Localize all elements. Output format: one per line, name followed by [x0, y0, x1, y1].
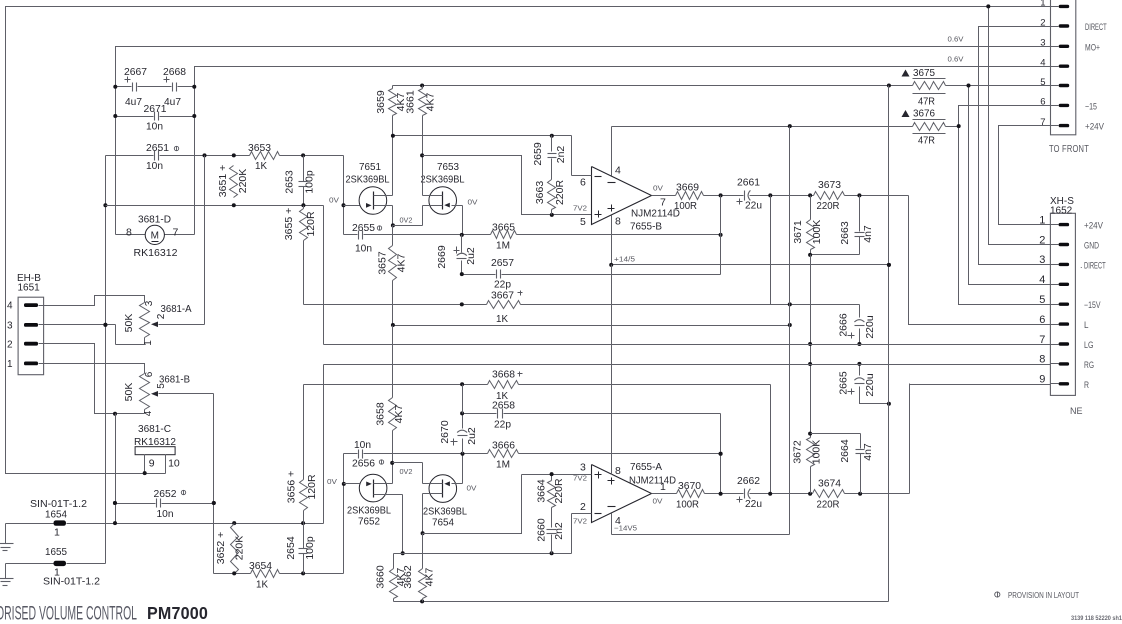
label XH-S 1652 [1050, 196, 1074, 217]
svg-text:1654: 1654 [45, 509, 67, 521]
svg-text:4n7: 4n7 [862, 443, 874, 461]
svg-text:2666: 2666 [838, 313, 850, 337]
resistor 3658 4K7 [375, 326, 406, 464]
svg-text:2661: 2661 [737, 177, 760, 189]
title MOTORISED VOLUME CONTROL [0, 603, 208, 624]
pin label GND (xh-s pin2) [1084, 241, 1099, 251]
svg-text:0.6V: 0.6V [948, 55, 964, 64]
svg-text:2659: 2659 [532, 142, 544, 166]
wire input drop x343.5 (2651 line to gate/2655) [342, 156, 346, 235]
svg-text:8: 8 [615, 216, 621, 228]
wire eh-b pin4 to pot 3681-A top [44, 296, 145, 306]
resistor 3653 1K [248, 142, 280, 172]
wire 7651 gate stub [344, 205, 360, 207]
svg-text:220R: 220R [554, 180, 566, 206]
svg-text:220K: 220K [237, 169, 249, 194]
wire 4u7 line y86.7 [113, 85, 196, 89]
svg-text:7V2: 7V2 [573, 517, 587, 526]
svg-text:2662: 2662 [737, 475, 760, 487]
pin label DIRECT (to-front pin2) [1085, 22, 1107, 32]
svg-text:2665: 2665 [838, 371, 850, 395]
svg-text:NJM2114D: NJM2114D [629, 475, 676, 487]
connector XH-S 1652 (9-pin header) [1039, 213, 1075, 395]
svg-text:3681-C: 3681-C [138, 423, 171, 435]
wire vertical x115 (pot-B bottom to 1654 line) [113, 414, 117, 524]
label 0V2 (top) [400, 216, 413, 225]
svg-text:2663: 2663 [839, 221, 851, 245]
svg-text:3659: 3659 [375, 90, 387, 114]
svg-text:4K7: 4K7 [396, 254, 408, 273]
label 0.6V (pin3 line) [948, 35, 964, 44]
svg-text:7: 7 [1040, 117, 1045, 128]
svg-text:220K: 220K [234, 536, 246, 561]
resistor 3668 1K [488, 369, 523, 403]
svg-text:3671: 3671 [792, 220, 804, 244]
wire vertical x889 (+14V5 distribution) [887, 86, 891, 602]
svg-text:4: 4 [7, 301, 13, 312]
label 0V (7653) [468, 198, 478, 207]
wire input line y155 (2651 line) [106, 153, 344, 157]
wire output' corner up to R? (to xh-s via 909) [909, 384, 911, 494]
svg-text:0V: 0V [653, 183, 663, 192]
wire 7653 drain up to 3661/155-line [420, 153, 424, 195]
wire ground line y304 (3655 to 2666) [304, 302, 860, 306]
svg-text:L: L [1084, 320, 1089, 330]
svg-text:−15V: −15V [1084, 300, 1101, 310]
svg-text:9: 9 [149, 458, 155, 470]
svg-text:100R: 100R [676, 499, 699, 511]
svg-text:TO FRONT: TO FRONT [1049, 143, 1089, 155]
svg-text:0V: 0V [653, 497, 663, 506]
svg-text:1652: 1652 [1050, 206, 1073, 217]
svg-text:1: 1 [7, 359, 13, 370]
wire -14V5 line y534 to bottom opamp pin4 [612, 534, 790, 536]
svg-text:3674: 3674 [818, 478, 841, 490]
svg-text:7V2: 7V2 [573, 204, 587, 213]
svg-text:R: R [1084, 380, 1089, 390]
svg-text:RK16312: RK16312 [134, 247, 178, 259]
svg-text:3651 +: 3651 + [217, 165, 229, 197]
capacitor 2669 2u2 (elco) [436, 235, 477, 275]
pin label RG (xh-s pin8) [1084, 360, 1094, 370]
resistor 3651 220K [217, 165, 249, 198]
wire DIRECT: to-front pin2 down to xh-s pin3 [979, 27, 1051, 265]
svg-text:3662: 3662 [402, 565, 414, 589]
svg-text:3681-B: 3681-B [159, 374, 190, 386]
wire input drop x343.8 (3654 line up to gate/2656) [342, 454, 346, 574]
resistor 3662 4K7 [402, 534, 436, 602]
op-amp U7655-A NJM2114D [522, 461, 677, 527]
wire R line y384 east segment (output corner to xh-s pin9) [910, 384, 1051, 386]
svg-text:1: 1 [143, 340, 154, 346]
resistor 3652 220K [215, 524, 246, 574]
wire output line y195 (7655-B out east) [652, 193, 909, 197]
resistor 3669 100R [674, 182, 704, 213]
capacitor 2652 10n [154, 488, 186, 520]
svg-text:3664: 3664 [536, 479, 548, 503]
transistor 7653 2SK369BL (JFET) [421, 161, 465, 214]
resistor 3665 1M [491, 222, 517, 252]
wire 3660/3662 bottom line y601 [394, 599, 889, 603]
svg-text:RG: RG [1084, 360, 1094, 370]
svg-text:100K: 100K [811, 440, 823, 465]
label EH-B 1651 [17, 273, 41, 294]
wire output line y494 (7655-A out east) [652, 492, 910, 496]
svg-text:2: 2 [7, 339, 13, 350]
wire +14V5 rail (y85) from 3659 top to to-front pin5 [393, 84, 1051, 88]
svg-text:4: 4 [615, 165, 621, 177]
svg-text:1M: 1M [496, 459, 510, 471]
label 0V (7654) [467, 484, 477, 493]
svg-text:NE: NE [1070, 406, 1083, 416]
capacitor 2655 10n [344, 222, 462, 255]
wire eh-b pin3 junction + jog to pot-A terminal1 [44, 323, 116, 345]
svg-text:3676: 3676 [913, 108, 935, 120]
wire -14V5 rail (y126) from opamp pin4 corner to -15 vertical [612, 124, 961, 128]
svg-text:100K: 100K [811, 220, 823, 245]
wire 3671/2663 bottom tie y255 [808, 253, 859, 257]
resistor 3672 100K [792, 432, 823, 494]
label 0V (7651 gate) [329, 196, 339, 205]
svg-text:SIN-01T-1.2: SIN-01T-1.2 [43, 576, 100, 588]
resistor 3654 1K [249, 560, 280, 591]
transistor 7652 2SK369BL (JFET) [347, 474, 403, 527]
svg-text:3661: 3661 [405, 90, 417, 114]
svg-text:3681-D: 3681-D [138, 214, 171, 226]
svg-text:3654: 3654 [249, 560, 272, 572]
potentiometer body 3681-C RK16312 [134, 423, 180, 474]
svg-text:4K7: 4K7 [425, 93, 437, 112]
wire LG line y344 [324, 344, 1051, 346]
svg-text:3656 +: 3656 + [286, 471, 298, 503]
svg-text:7V2: 7V2 [573, 474, 587, 483]
svg-text:−15: −15 [1085, 101, 1097, 111]
svg-text:3652 +: 3652 + [215, 532, 227, 564]
capacitor 2660 2n2 [536, 513, 566, 554]
svg-text:4u7: 4u7 [164, 96, 181, 108]
border frame left + top (ground net wire) [6, 7, 1051, 474]
wire 2658 line y413 [460, 411, 720, 415]
resistor 3674 220R [813, 478, 845, 511]
svg-text:3673: 3673 [818, 179, 841, 191]
svg-text:1K: 1K [496, 313, 508, 325]
svg-text:1M: 1M [496, 240, 510, 252]
transistor 7651 2SK369BL (JFET) [346, 161, 393, 214]
wire -15: to-front pin6 down to xh-s pin5 [959, 106, 1051, 305]
svg-text:5: 5 [1040, 77, 1045, 88]
wire 1654 line y523 (R-channel ground) [6, 521, 324, 525]
svg-text:10: 10 [168, 458, 180, 470]
pin label +24V (to-front pin7) [1085, 122, 1104, 132]
svg-text:1: 1 [1040, 0, 1045, 9]
wire 2657 corner up to feedback junction [720, 196, 722, 275]
svg-text:1: 1 [54, 527, 60, 539]
label +14/5 [614, 255, 635, 264]
wire 7654 source west+up to 0V2' line [422, 463, 424, 484]
resistor 3667 1K [487, 290, 523, 326]
svg-text:220R: 220R [817, 499, 840, 511]
svg-text:2SK369BL: 2SK369BL [421, 174, 465, 186]
svg-text:2668: 2668 [163, 66, 186, 78]
svg-text:DIRECT: DIRECT [1084, 260, 1106, 270]
wire 0.6V line from cap junction to to-front pin4 [195, 67, 1051, 87]
pin label R (xh-s pin9) [1084, 380, 1089, 390]
wire opamp-A pin4 down to -14V5 line [611, 514, 613, 535]
wire 3666 line y454 [461, 452, 723, 456]
wire gate line y205 (0V) [106, 203, 324, 207]
svg-text:PROVISION IN LAYOUT: PROVISION IN LAYOUT [1008, 591, 1079, 600]
wire MO+ line (0.6V) from caps to to-front pin3 [116, 47, 1051, 87]
svg-text:220R: 220R [817, 200, 840, 212]
op-amp U7655-B NJM2114D [572, 165, 681, 233]
pin label −15V (xh-s pin5) [1084, 300, 1101, 310]
wire 2661 out down x770 (to ground line) [770, 196, 772, 305]
svg-text:5: 5 [580, 216, 586, 228]
svg-text:2u2: 2u2 [466, 427, 478, 445]
wire +24V: to-front pin7 down to xh-s pin1 [999, 126, 1051, 225]
svg-text:1K: 1K [255, 160, 267, 172]
wire GND: top border junction down to xh-s pin2 [986, 4, 1050, 244]
wire vertical x323.7 RG corner down to 1654 line [323, 365, 325, 524]
wire to-front pin5 / 3675 junction down to xh-s pin4 [969, 86, 1051, 285]
wire opamp-B pin4 from -14V5 rail [611, 127, 613, 176]
svg-text:GND: GND [1084, 241, 1099, 251]
svg-text:2651: 2651 [146, 142, 169, 154]
wire RG line y364 [324, 364, 1051, 366]
svg-text:3653: 3653 [248, 142, 271, 154]
label TO FRONT [1049, 143, 1089, 155]
resistor 3673 220R [814, 179, 845, 212]
svg-text:4u7: 4u7 [125, 96, 142, 108]
svg-text:220u: 220u [864, 315, 876, 339]
wire 2662 out up x770 (to R west line) [770, 385, 772, 494]
svg-text:10n: 10n [146, 121, 163, 133]
svg-text:2653: 2653 [284, 170, 296, 194]
svg-text:100p: 100p [304, 536, 316, 560]
svg-text:.: . [1080, 260, 1083, 270]
wire vertical x323.6 gate-line corner down to LG corner [323, 206, 325, 345]
svg-text:7651: 7651 [359, 161, 381, 173]
capacitor 2662 22u (elco) [737, 475, 763, 510]
label -14V5 (bottom) [614, 524, 637, 533]
svg-text:0V2: 0V2 [400, 467, 413, 476]
pin label MO+ (to-front pin3) [1085, 42, 1100, 52]
wire vertical x115 (MO+ node down to motor) [115, 47, 117, 235]
svg-text:2657: 2657 [491, 257, 514, 269]
svg-text:9: 9 [1039, 374, 1045, 386]
svg-text:0V2: 0V2 [400, 216, 413, 225]
svg-text:4: 4 [143, 410, 154, 416]
wire 2658 corner down to fb junction [719, 414, 723, 494]
svg-text:3666: 3666 [492, 440, 515, 452]
legend PROVISION IN LAYOUT [995, 591, 1079, 600]
capacitor 2653 100p [284, 156, 316, 206]
capacitor 2664 4n7 [839, 434, 874, 494]
svg-text:1K: 1K [496, 390, 508, 402]
wire vertical x810 (3671 bottom to 3672 top) [808, 255, 812, 434]
wire 10n line y116 [113, 114, 196, 118]
svg-text:DIRECT: DIRECT [1085, 22, 1107, 32]
connector TO FRONT (7-pin header) [1040, 0, 1076, 135]
resistor 3670 100R [676, 480, 705, 511]
svg-text:47R: 47R [918, 135, 935, 147]
wire +14V5 line y265 [609, 263, 891, 267]
resistor 3666 1M [488, 440, 519, 471]
resistor 3657 4K7 [377, 226, 408, 326]
ferrite bead 1654 SIN-01T-1.2 [30, 498, 87, 539]
capacitor 2661 22u (elco) [737, 177, 763, 212]
svg-text:1K: 1K [256, 579, 268, 591]
ground (1654) [0, 524, 14, 551]
svg-text:6: 6 [1040, 97, 1045, 108]
svg-text:6: 6 [144, 371, 155, 377]
wire 7652 source up to 0V2' junction [390, 461, 394, 484]
capacitor 2663 4n7 [839, 196, 874, 255]
resistor 3655 120R [283, 206, 317, 305]
svg-text:4: 4 [615, 515, 621, 527]
resistor 3675 47R (fusible) [902, 67, 946, 108]
label 0.6V (pin4 line) [948, 55, 964, 64]
wire feedback tap 720 down [720, 196, 722, 235]
wire minus input from 2659 corner [571, 136, 573, 176]
wire 7654 gate up to 3666 node [462, 454, 464, 484]
svg-text:7652: 7652 [358, 516, 380, 528]
label NE (below XH-S) [1070, 406, 1083, 416]
resistor 3663 220R [534, 180, 566, 215]
svg-text:2656: 2656 [352, 458, 375, 470]
svg-text:1651: 1651 [18, 283, 41, 294]
svg-text:10n: 10n [157, 508, 174, 520]
svg-text:3655 +: 3655 + [283, 208, 295, 240]
capacitor 2651 10n [146, 142, 179, 172]
svg-text:50K: 50K [123, 314, 135, 333]
wire opamp-A pin8 from +14V5 (long vertical x611) [611, 265, 613, 475]
svg-text:100R: 100R [674, 200, 697, 212]
ground (1655) [0, 564, 14, 586]
svg-text:0V: 0V [468, 198, 478, 207]
svg-text:6: 6 [580, 177, 586, 189]
wire vertical x194 (0.6V node down to motor right) [194, 67, 196, 235]
wire 3672/2664 top tie y434 [811, 433, 861, 435]
wire 1655 line y563 [6, 563, 106, 565]
wire opamp-B pin8 down (+14V5) [611, 216, 613, 265]
wire vertical x105 (input return) [103, 156, 107, 564]
wire output corner to L line [909, 196, 1051, 325]
wire 7652 drain down x402.7 [401, 495, 405, 556]
svg-text:8: 8 [615, 465, 621, 477]
svg-text:3667: 3667 [491, 290, 514, 302]
wire 2657 line y274 [460, 272, 721, 276]
svg-text:3665: 3665 [492, 222, 515, 234]
capacitor 2656 10n [344, 439, 463, 470]
wire 135.8 line (3659 to minus input) [391, 134, 572, 138]
wire 7651 drain up to 3659 [392, 136, 394, 196]
wire 155-line to + input drop [423, 156, 592, 217]
svg-text:2671: 2671 [144, 103, 167, 115]
resistor 3671 100K [792, 196, 823, 255]
capacitor 2657 22p [491, 257, 514, 291]
resistor 3659 4K7 [375, 86, 407, 136]
wire eh-b pin1 to pot 3681-B top [44, 364, 145, 374]
wire minus' input vertical [571, 514, 573, 554]
wire 3654 line y573 [214, 571, 344, 575]
svg-text:2u2: 2u2 [465, 247, 477, 265]
wire 2652 line y503 [113, 501, 216, 505]
label 0V2 (bottom) [400, 467, 413, 476]
svg-text:50K: 50K [123, 383, 135, 402]
pin label DIRECT (xh-s pin3) [1084, 260, 1106, 270]
svg-text:3672: 3672 [792, 440, 804, 464]
svg-text:7655-A: 7655-A [630, 461, 662, 473]
svg-text:22u: 22u [745, 498, 762, 510]
svg-text:PM7000: PM7000 [147, 603, 208, 623]
svg-text:120R: 120R [306, 474, 318, 500]
svg-text:7655-B: 7655-B [630, 221, 662, 233]
wire 2670 top to R line [462, 385, 464, 414]
pin label period before DIRECT (xh-s pin3) [1080, 260, 1083, 270]
capacitor 2654 100p [285, 524, 316, 574]
svg-text:220R: 220R [553, 478, 565, 504]
svg-text:10n: 10n [146, 160, 163, 172]
resistor 3656 120R [286, 385, 319, 524]
svg-text:2655: 2655 [352, 222, 375, 234]
svg-text:3660: 3660 [375, 565, 387, 589]
capacitor 2671 10n [144, 103, 167, 133]
resistor 3664 220R [536, 472, 566, 512]
svg-text:7654: 7654 [432, 517, 454, 529]
capacitor 2670 2u2 (elco) [439, 414, 478, 454]
svg-text:2669: 2669 [436, 245, 448, 269]
wire 0V2' link y463 [393, 462, 423, 464]
label 0V (7652 gate) [327, 477, 337, 486]
footer part number 3139 118 52220 [1071, 616, 1122, 622]
svg-text:+24V: +24V [1084, 221, 1103, 231]
svg-text:3657: 3657 [377, 251, 389, 275]
svg-text:M: M [151, 231, 159, 242]
svg-text:2660: 2660 [536, 518, 548, 542]
svg-text:3675: 3675 [913, 67, 935, 79]
pin label +24V (xh-s pin1) [1084, 221, 1103, 231]
svg-text:3681-A: 3681-A [161, 303, 192, 315]
connector EH-B 1651 (4-pin) [7, 297, 44, 375]
svg-text:3: 3 [7, 321, 13, 332]
svg-text:2: 2 [580, 501, 586, 513]
capacitor 2659 2n2 [532, 136, 567, 180]
wire 0V2 link line y225 [393, 225, 423, 227]
svg-text:100p: 100p [304, 170, 316, 194]
svg-text:0V: 0V [329, 196, 339, 205]
ferrite bead 1655 SIN-01T-1.2 [43, 546, 100, 588]
svg-text:22u: 22u [745, 200, 762, 212]
wire ground line y473 junction at 3681-C pin9 [143, 471, 147, 475]
capacitor 2658 22p [492, 400, 515, 431]
potentiometer 3681-A 50K [116, 156, 205, 346]
svg-text:2652: 2652 [154, 488, 177, 500]
capacitor 2666 220u (elco) [838, 305, 877, 347]
wire eh-b pin2 down to pot 3681-B bottom [44, 344, 145, 416]
svg-text:3: 3 [144, 300, 155, 306]
svg-text:2n2: 2n2 [553, 522, 565, 540]
svg-text:7653: 7653 [437, 161, 459, 173]
transistor 7654 2SK369BL (JFET) [423, 475, 468, 529]
wire 7654 drain down to 533 line [421, 494, 425, 536]
wire 7653 gate down to feedback node [462, 206, 464, 235]
svg-text:3658: 3658 [375, 402, 387, 426]
svg-text:RK16312: RK16312 [134, 436, 176, 448]
svg-text:10n: 10n [355, 243, 372, 255]
svg-text:LG: LG [1084, 340, 1094, 350]
svg-text:2654: 2654 [285, 536, 297, 560]
